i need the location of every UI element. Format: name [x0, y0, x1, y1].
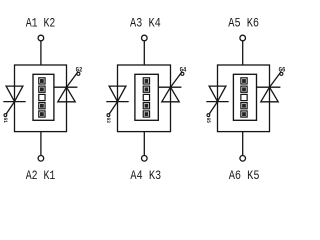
- gate terminal G3: [107, 114, 110, 117]
- wire module box to thyristor T6 bar: [256, 86, 280, 88]
- wire loop to bottom terminal: [40, 132, 42, 156]
- svg-text:G3: G3: [105, 118, 112, 124]
- gate terminal G1: [4, 114, 7, 117]
- pin 4: [241, 103, 247, 109]
- terminal A3/K4 top: [142, 35, 148, 41]
- pin 5: [39, 111, 45, 117]
- pin 3: [39, 94, 45, 100]
- thyristor T5 (left, conducts down): [206, 86, 228, 114]
- gate terminal G2: [77, 72, 80, 75]
- svg-text:G1: G1: [2, 118, 9, 124]
- svg-text:G4: G4: [180, 66, 187, 74]
- wire module box to thyristor T4 bar: [158, 86, 181, 88]
- wire loop rectangle: [218, 65, 270, 132]
- svg-text:A1 K2: A1 K2: [26, 16, 56, 30]
- thyristor T2 (right, conducts up): [58, 72, 78, 102]
- thyristor T3 (left, conducts down): [106, 86, 128, 114]
- gate terminal G5: [207, 114, 210, 117]
- pin 4: [39, 103, 45, 109]
- wire top terminal to loop: [40, 41, 42, 65]
- gate terminal G4: [181, 72, 184, 75]
- terminal A2/K1 bottom: [38, 156, 44, 162]
- module box: [233, 74, 256, 120]
- wire module box to thyristor T2 bar: [54, 86, 78, 88]
- wire loop rectangle: [118, 65, 171, 132]
- terminal A5/K6 top: [240, 35, 246, 41]
- svg-text:A2 K1: A2 K1: [26, 169, 56, 183]
- pin 5: [241, 111, 247, 117]
- terminal A6/K5 bottom: [240, 156, 246, 162]
- pin 2: [39, 86, 45, 92]
- terminal A1/K2 top: [38, 35, 44, 41]
- thyristor T4 (right, conducts up): [162, 72, 182, 102]
- thyristor T6 (right, conducts up): [261, 72, 281, 102]
- pin 4: [143, 103, 149, 109]
- terminal A4/K3 bottom: [142, 156, 148, 162]
- thyristor T1 (left, conducts down): [3, 86, 25, 114]
- module box: [135, 74, 158, 120]
- pin 1: [143, 78, 149, 84]
- svg-text:G2: G2: [76, 66, 83, 74]
- pin 5: [143, 111, 149, 117]
- pin 3: [143, 94, 149, 100]
- pin 1: [39, 78, 45, 84]
- pin 2: [143, 86, 149, 92]
- wire loop to bottom terminal: [242, 132, 244, 156]
- gate terminal G6: [280, 72, 283, 75]
- svg-text:A5 K6: A5 K6: [228, 16, 259, 30]
- wire top terminal to loop: [242, 41, 244, 65]
- svg-text:A3 K4: A3 K4: [130, 16, 161, 30]
- pin 3: [241, 94, 247, 100]
- module box: [33, 74, 54, 120]
- pin 1: [241, 78, 247, 84]
- svg-text:A6 K5: A6 K5: [229, 169, 260, 183]
- wire loop rectangle: [15, 65, 67, 132]
- svg-text:A4 K3: A4 K3: [130, 169, 161, 183]
- wire loop to bottom terminal: [143, 132, 145, 156]
- wire top terminal to loop: [143, 41, 145, 65]
- svg-text:G5: G5: [205, 118, 212, 124]
- svg-text:G6: G6: [279, 66, 286, 74]
- pin 2: [241, 86, 247, 92]
